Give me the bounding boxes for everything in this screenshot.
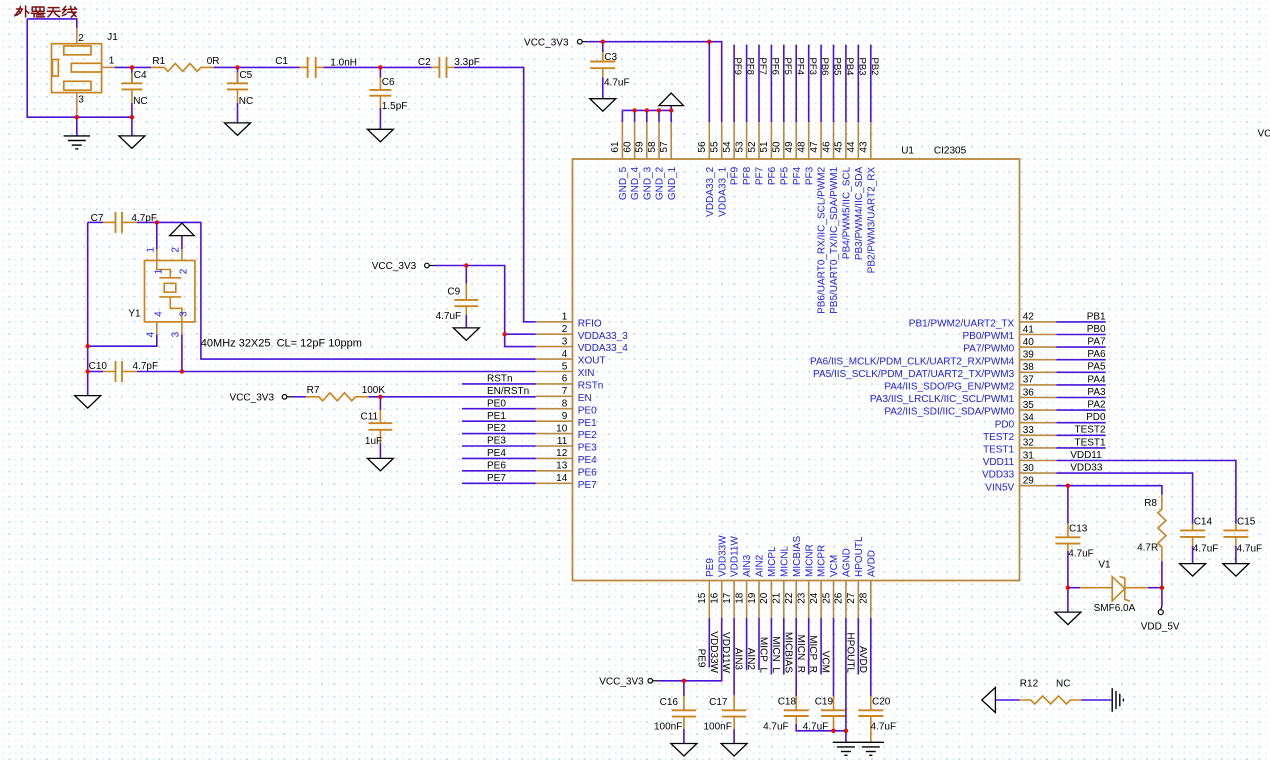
- wire R1 to C5 node: [214, 66, 238, 68]
- pin 8 PE0: [536, 408, 573, 410]
- wire net PA2: [1056, 409, 1106, 411]
- wire gnd pin drops: [634, 110, 636, 122]
- capacitor C11: [379, 397, 381, 410]
- svg-text:GND_5: GND_5: [618, 166, 629, 200]
- svg-text:PA7/PWM0: PA7/PWM0: [963, 344, 1014, 355]
- wire net PD0: [1056, 422, 1106, 424]
- pin 58 GND_2: [658, 122, 660, 159]
- svg-text:4.7uF: 4.7uF: [604, 78, 630, 89]
- ground triangle below C3: [590, 99, 616, 112]
- svg-text:PB2/PWM3/UART2_RX: PB2/PWM3/UART2_RX: [866, 166, 877, 273]
- wire net PE7: [462, 482, 536, 484]
- wire net PA5: [1056, 371, 1106, 373]
- svg-text:PF9: PF9: [732, 58, 743, 75]
- wire net AIN3: [746, 618, 748, 670]
- pin 39 PA6/IIS_MCLK/PDM_CLK/UART2_RX/PWM4: [1020, 359, 1057, 361]
- svg-text:PA6/IIS_MCLK/PDM_CLK/UART2_RX/: PA6/IIS_MCLK/PDM_CLK/UART2_RX/PWM4: [810, 356, 1015, 367]
- svg-text:PE3: PE3: [578, 443, 597, 454]
- wire C6 node to C2: [380, 66, 431, 68]
- pin 14 PE7: [536, 482, 573, 484]
- svg-text:36: 36: [1023, 387, 1035, 398]
- capacitor C17: [733, 695, 735, 710]
- svg-text:17: 17: [722, 592, 733, 604]
- svg-text:C11: C11: [361, 412, 379, 423]
- wire net AIN2: [758, 618, 760, 670]
- svg-text:19: 19: [747, 592, 758, 604]
- svg-text:R8: R8: [1144, 498, 1157, 509]
- wire net PB1: [1056, 321, 1106, 323]
- svg-text:11: 11: [557, 436, 568, 447]
- title 外置天线 (external antenna): [15, 6, 77, 17]
- pin 59 GND_3: [646, 122, 648, 159]
- svg-text:C4: C4: [134, 70, 147, 81]
- svg-text:35: 35: [1023, 400, 1035, 411]
- wire R12 to earth: [1081, 699, 1111, 701]
- power port VDD_5V: [1161, 588, 1163, 607]
- pin 40 PA7/PWM0: [1020, 346, 1057, 348]
- svg-text:C19: C19: [815, 696, 834, 707]
- svg-text:VDDA33_4: VDDA33_4: [578, 343, 628, 354]
- pin 55 VDDA33_1: [721, 122, 723, 159]
- svg-text:44: 44: [846, 141, 857, 153]
- svg-text:4: 4: [153, 311, 164, 317]
- pin 10 PE2: [536, 433, 573, 435]
- ground triangle below C4: [131, 117, 133, 136]
- svg-text:40: 40: [1023, 337, 1035, 348]
- svg-text:C1: C1: [275, 56, 288, 67]
- capacitor C3: [602, 42, 604, 53]
- svg-text:38: 38: [1023, 362, 1035, 373]
- ground triangle below C5: [225, 123, 251, 135]
- connector J1: [52, 44, 102, 93]
- svg-text:RSTn: RSTn: [578, 381, 604, 392]
- svg-text:54: 54: [722, 141, 733, 153]
- pin 18 AIN3: [746, 581, 748, 618]
- svg-text:4: 4: [562, 349, 568, 360]
- svg-text:7: 7: [562, 386, 568, 397]
- svg-text:PF7: PF7: [755, 166, 766, 185]
- svg-text:53: 53: [734, 141, 745, 153]
- svg-text:32: 32: [1023, 438, 1035, 449]
- capacitor C1 (1.0nH): [300, 66, 308, 68]
- svg-text:C15: C15: [1237, 517, 1256, 528]
- svg-text:PE7: PE7: [578, 480, 597, 491]
- svg-text:25: 25: [821, 592, 832, 604]
- svg-text:3: 3: [562, 336, 568, 347]
- svg-text:PA2/IIS_SDI/IIC_SDA/PWM0: PA2/IIS_SDI/IIC_SDA/PWM0: [884, 407, 1014, 418]
- wire VDD11 to C15: [1056, 461, 1236, 524]
- svg-text:MICNR: MICNR: [804, 544, 815, 577]
- ground triangle below C13: [1067, 588, 1069, 612]
- ground triangle left-pointing at R12: [982, 688, 996, 713]
- earth ground right of R12: [1111, 688, 1113, 712]
- svg-text:10: 10: [556, 423, 568, 434]
- svg-text:4.7uF: 4.7uF: [871, 722, 897, 733]
- crystal Y1: [156, 249, 158, 260]
- svg-text:4.7uF: 4.7uF: [1237, 544, 1263, 555]
- svg-text:RSTn: RSTn: [487, 374, 513, 385]
- svg-text:58: 58: [647, 141, 658, 153]
- pin 9 PE1: [536, 420, 573, 422]
- svg-text:PF6: PF6: [767, 166, 778, 185]
- svg-text:PB4/PWM5/IIC_SCL: PB4/PWM5/IIC_SCL: [842, 166, 853, 259]
- svg-text:1: 1: [146, 247, 157, 253]
- svg-text:4.7uF: 4.7uF: [436, 311, 462, 322]
- pin 42 PB1/PWM2/UART2_TX: [1020, 321, 1057, 323]
- pin 1 RFIO: [536, 321, 573, 323]
- svg-text:3.3pF: 3.3pF: [454, 57, 480, 68]
- svg-text:37: 37: [1023, 375, 1035, 386]
- svg-text:PF5: PF5: [779, 166, 790, 185]
- ground triangle left rail: [75, 396, 101, 409]
- svg-text:41: 41: [1023, 324, 1035, 335]
- svg-text:PF7: PF7: [757, 58, 768, 75]
- wire AVDD pin28 to C20: [870, 618, 872, 696]
- svg-text:52: 52: [747, 141, 758, 153]
- svg-text:PB5/UART0_TX/IIC_SDA/PWM1: PB5/UART0_TX/IIC_SDA/PWM1: [829, 166, 840, 314]
- svg-text:55: 55: [710, 141, 721, 153]
- svg-text:SMF6.0A: SMF6.0A: [1094, 603, 1136, 614]
- pin 54 PF9: [733, 122, 735, 159]
- svg-text:4: 4: [146, 331, 157, 337]
- svg-text:2: 2: [179, 268, 190, 274]
- svg-text:27: 27: [846, 592, 857, 604]
- svg-text:EN: EN: [578, 393, 592, 404]
- svg-text:50: 50: [772, 141, 783, 153]
- svg-text:PE7: PE7: [487, 473, 506, 484]
- wire net PE1: [462, 420, 536, 422]
- svg-text:C7: C7: [91, 213, 104, 224]
- svg-text:12: 12: [556, 448, 568, 459]
- capacitor C6: [379, 67, 381, 77]
- svg-text:CI2305: CI2305: [934, 145, 967, 156]
- svg-text:100nF: 100nF: [654, 722, 682, 733]
- wire Y1 pin1 drop: [156, 222, 158, 249]
- svg-text:4.7uF: 4.7uF: [803, 722, 829, 733]
- svg-text:XIN: XIN: [578, 368, 595, 379]
- pin 28 AVDD: [870, 581, 872, 618]
- svg-text:TEST2: TEST2: [983, 432, 1015, 443]
- svg-text:PB0: PB0: [1087, 324, 1106, 335]
- pin 21 MICNL: [783, 581, 785, 618]
- svg-text:2: 2: [562, 324, 568, 335]
- svg-text:C6: C6: [382, 77, 395, 88]
- capacitor C13: [1067, 486, 1069, 524]
- svg-text:PB3/PWM4/IIC_SDA: PB3/PWM4/IIC_SDA: [854, 166, 865, 260]
- earth ground AGND: [833, 741, 859, 743]
- pin 61 GND_5: [621, 122, 623, 159]
- svg-text:31: 31: [1023, 450, 1035, 461]
- svg-text:PE4: PE4: [487, 448, 506, 459]
- svg-text:57: 57: [659, 141, 670, 153]
- svg-text:PF4: PF4: [794, 58, 805, 75]
- svg-text:NC: NC: [239, 96, 253, 107]
- wire net PA7: [1056, 346, 1106, 348]
- wire gnd to R12: [995, 699, 1019, 701]
- svg-text:VCC_3V3: VCC_3V3: [524, 37, 569, 48]
- wire pin 56 drop: [708, 42, 710, 123]
- svg-text:MICNL: MICNL: [779, 545, 790, 577]
- svg-text:4.7pF: 4.7pF: [131, 213, 157, 224]
- svg-text:1: 1: [562, 312, 568, 323]
- svg-text:GND_3: GND_3: [642, 166, 653, 200]
- svg-text:VDD11W: VDD11W: [730, 536, 741, 577]
- pin 52 PF7: [758, 122, 760, 159]
- capacitor C18: [795, 696, 797, 710]
- wire antenna left drop: [27, 19, 132, 117]
- svg-text:XOUT: XOUT: [578, 356, 606, 367]
- svg-text:PF5: PF5: [782, 58, 793, 75]
- power arrow above Y1 pin2: [181, 236, 183, 250]
- svg-text:PF3: PF3: [804, 166, 815, 185]
- svg-text:3: 3: [171, 331, 182, 337]
- svg-text:PE1: PE1: [487, 411, 506, 422]
- svg-text:PE1: PE1: [578, 418, 597, 429]
- wire net PA3: [1056, 397, 1106, 399]
- svg-text:C14: C14: [1194, 517, 1213, 528]
- svg-text:PB1: PB1: [1087, 311, 1106, 322]
- pin 46 PB5/UART0_TX/IIC_SDA/PWM1: [833, 122, 835, 159]
- svg-text:PA4/IIS_SDO/PG_EN/PWM2: PA4/IIS_SDO/PG_EN/PWM2: [884, 382, 1014, 393]
- pin 29 VIN5V: [1020, 485, 1057, 487]
- pin 20 MICPL: [770, 581, 772, 618]
- capacitor C2: [432, 66, 440, 68]
- svg-text:VIN5V: VIN5V: [985, 482, 1014, 493]
- svg-text:VDDA33_2: VDDA33_2: [705, 166, 716, 216]
- svg-text:R1: R1: [152, 56, 165, 67]
- svg-text:RFIO: RFIO: [578, 318, 602, 329]
- pin 3 of J1: [76, 93, 78, 118]
- wire net PB0: [1056, 334, 1106, 336]
- pin 44 PB3/PWM4/IIC_SDA: [857, 122, 859, 159]
- svg-text:PA3/IIS_LRCLK/IIC_SCL/PWM1: PA3/IIS_LRCLK/IIC_SCL/PWM1: [870, 394, 1015, 405]
- svg-text:PE6: PE6: [578, 467, 597, 478]
- wire net MICP_L: [770, 618, 772, 675]
- svg-text:100K: 100K: [362, 385, 386, 396]
- capacitor C9: [465, 266, 467, 284]
- capacitor C10: [88, 371, 103, 373]
- svg-text:TEST1: TEST1: [983, 445, 1015, 456]
- svg-text:3: 3: [179, 311, 190, 317]
- svg-text:PF8: PF8: [745, 58, 756, 75]
- wire VDD11W pin17 to C17: [733, 618, 735, 696]
- svg-text:8: 8: [562, 399, 568, 410]
- pin 17 VDD11W: [733, 581, 735, 618]
- svg-text:9: 9: [562, 411, 568, 422]
- capacitor C5: [237, 67, 239, 83]
- wire net PE6: [462, 470, 536, 472]
- svg-text:18: 18: [734, 592, 745, 604]
- svg-text:C17: C17: [709, 697, 728, 708]
- svg-text:14: 14: [556, 473, 568, 484]
- svg-text:C16: C16: [660, 697, 679, 708]
- svg-text:PB1/PWM2/UART2_TX: PB1/PWM2/UART2_TX: [909, 319, 1015, 330]
- svg-text:C13: C13: [1069, 524, 1088, 535]
- svg-text:PF4: PF4: [792, 166, 803, 185]
- svg-text:33: 33: [1023, 425, 1035, 436]
- svg-text:60: 60: [622, 141, 633, 153]
- svg-text:MICPR: MICPR: [817, 545, 828, 577]
- pin 53 PF8: [746, 122, 748, 159]
- svg-text:C18: C18: [778, 696, 797, 707]
- ground triangle below C9: [453, 328, 479, 341]
- wire net RSTn: [462, 383, 536, 385]
- svg-text:EN/RSTn: EN/RSTn: [487, 386, 529, 397]
- wire net MICP_R: [820, 618, 822, 675]
- pin 35 PA2/IIS_SDI/IIC_SDA/PWM0: [1020, 409, 1057, 411]
- svg-text:VDD11: VDD11: [983, 457, 1015, 468]
- wire C5 node to C1: [238, 66, 300, 68]
- wire net PA6: [1056, 359, 1106, 361]
- svg-text:30: 30: [1023, 463, 1035, 474]
- pin 3 VDDA33_4: [536, 346, 573, 348]
- svg-text:4.7uF: 4.7uF: [763, 722, 789, 733]
- svg-text:PE2: PE2: [578, 430, 597, 441]
- svg-text:U1: U1: [901, 145, 914, 156]
- resistor R8: [1158, 495, 1166, 561]
- pin 49 PF4: [795, 122, 797, 159]
- pin 60 GND_4: [634, 122, 636, 159]
- ground triangle below C14: [1180, 564, 1206, 577]
- pin 12 PE4: [536, 457, 573, 459]
- svg-text:4.7pF: 4.7pF: [133, 361, 159, 372]
- pin 2 of J1: [76, 28, 78, 44]
- pin 26 AGND: [845, 581, 847, 618]
- svg-text:AGND: AGND: [842, 548, 853, 577]
- pin 56 VDDA33_2: [708, 122, 710, 159]
- svg-text:40MHz 32X25 CL= 12pF 10ppm: 40MHz 32X25 CL= 12pF 10ppm: [201, 338, 362, 350]
- wire antenna net: [27, 19, 77, 28]
- ground triangle below C6: [367, 129, 393, 142]
- pin 15 PE9: [708, 581, 710, 618]
- pin 36 PA3/IIS_LRCLK/IIC_SCL/PWM1: [1020, 397, 1057, 399]
- pin 34 PD0: [1020, 422, 1057, 424]
- svg-text:PB6: PB6: [819, 58, 830, 76]
- ground triangle below C16: [671, 744, 697, 757]
- power arrow on gnd rail: [670, 106, 672, 111]
- wire GND pins rail: [622, 109, 671, 111]
- svg-text:Y1: Y1: [128, 309, 141, 320]
- resistor R12: [1020, 696, 1082, 704]
- svg-text:PF9: PF9: [730, 166, 741, 185]
- svg-text:PE0: PE0: [487, 398, 506, 409]
- svg-text:MICPL: MICPL: [767, 546, 778, 577]
- capacitor C20: [870, 696, 872, 710]
- svg-text:4.7uF: 4.7uF: [1068, 549, 1094, 560]
- wire net MICN_L: [783, 618, 785, 675]
- svg-text:15: 15: [697, 592, 708, 604]
- svg-text:2: 2: [171, 247, 182, 253]
- pin 16 VDD33W: [721, 581, 723, 618]
- svg-text:PB4: PB4: [844, 58, 855, 76]
- diode V1 SMF6.0A: [1068, 587, 1080, 589]
- svg-text:PA4: PA4: [1087, 374, 1106, 385]
- svg-text:PB3: PB3: [856, 58, 867, 76]
- wire net PE3: [462, 445, 536, 447]
- svg-text:43: 43: [859, 141, 870, 153]
- wire Y1 pin4 to left rail: [88, 335, 157, 347]
- wire net MICN_R: [808, 618, 810, 675]
- svg-text:28: 28: [859, 592, 870, 604]
- svg-text:VCM: VCM: [829, 555, 840, 577]
- wire VCC_3V3 to VDDA pins 56/55: [588, 42, 722, 123]
- svg-text:48: 48: [797, 141, 808, 153]
- pin 50 PF5: [783, 122, 785, 159]
- capacitor C16: [683, 681, 685, 696]
- left vertical rail C7-C10-gnd: [87, 222, 89, 395]
- svg-text:GND_2: GND_2: [655, 166, 666, 200]
- earth ground below C20: [858, 741, 884, 743]
- wire C1 to C6 node: [324, 66, 381, 68]
- wire net PE4: [462, 457, 536, 459]
- svg-text:PE4: PE4: [578, 455, 597, 466]
- capacitor C14: [1192, 524, 1194, 531]
- svg-text:39: 39: [1023, 350, 1035, 361]
- wire net TEST2: [1056, 434, 1106, 436]
- svg-text:PF3: PF3: [807, 58, 818, 75]
- pin 25 VCM: [833, 581, 835, 618]
- wire Y1 pin3 drop to XIN row: [181, 335, 183, 372]
- svg-text:16: 16: [710, 592, 721, 604]
- svg-text:AIN3: AIN3: [742, 554, 753, 577]
- capacitor C19: [833, 696, 835, 710]
- pin 47 PB6/UART0_RX/IIC_SCL/PWM2: [820, 122, 822, 159]
- svg-text:23: 23: [797, 592, 808, 604]
- wire VCM pin25 to C19: [833, 618, 835, 696]
- wire VDD33 to C14: [1056, 473, 1192, 524]
- resistor R7: [306, 393, 369, 401]
- svg-text:C5: C5: [239, 70, 252, 81]
- svg-text:49: 49: [784, 141, 795, 153]
- svg-text:21: 21: [772, 592, 783, 604]
- junction dots overlay: [75, 115, 79, 119]
- capacitor C7: [88, 221, 103, 223]
- svg-text:PB6/UART0_RX/IIC_SCL/PWM2: PB6/UART0_RX/IIC_SCL/PWM2: [817, 166, 828, 314]
- pin 51 PF6: [770, 122, 772, 159]
- pin 45 PB4/PWM5/IIC_SCL: [845, 122, 847, 159]
- pin 4 XOUT: [536, 358, 573, 360]
- wire net PA4: [1056, 384, 1106, 386]
- svg-text:J1: J1: [107, 32, 118, 43]
- pin 30 VDD33: [1020, 472, 1057, 474]
- svg-text:6: 6: [562, 374, 568, 385]
- svg-text:VDD33: VDD33: [1070, 463, 1103, 474]
- wire R8 to V1 cathode: [1161, 561, 1163, 588]
- svg-text:VDDA33_1: VDDA33_1: [717, 166, 728, 216]
- wire VIN5V net: [1056, 486, 1162, 495]
- wire net PE0: [462, 408, 536, 410]
- svg-text:1uF: 1uF: [365, 436, 382, 447]
- svg-text:C20: C20: [872, 696, 891, 707]
- svg-text:56: 56: [697, 141, 708, 153]
- svg-text:HPOUTL: HPOUTL: [854, 536, 865, 577]
- svg-text:22: 22: [784, 592, 795, 604]
- wire J1 pin1 to R1: [115, 66, 152, 68]
- svg-text:PE3: PE3: [487, 436, 506, 447]
- svg-text:51: 51: [759, 141, 770, 153]
- wire C18 bottom to AGND rail: [796, 724, 846, 731]
- svg-text:R12: R12: [1020, 679, 1039, 690]
- svg-text:VCC_3V3: VCC_3V3: [372, 261, 417, 272]
- svg-text:VCC_3V3: VCC_3V3: [230, 392, 275, 403]
- svg-text:45: 45: [834, 141, 845, 153]
- IC U1 CI2305 body: [573, 159, 1020, 581]
- svg-text:5: 5: [562, 361, 568, 372]
- svg-text:PA3: PA3: [1087, 387, 1106, 398]
- svg-text:C9: C9: [447, 287, 460, 298]
- svg-text:C10: C10: [89, 361, 108, 372]
- ground triangle below C17: [721, 744, 747, 757]
